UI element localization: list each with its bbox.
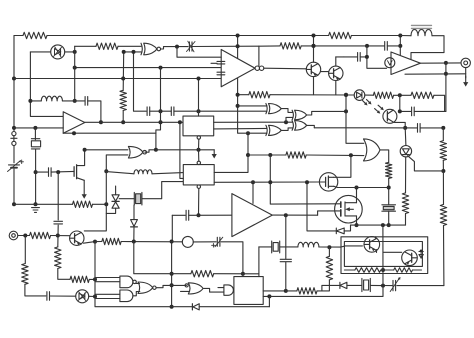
wire U7 top pin <box>198 79 200 117</box>
crystal X1 <box>31 139 40 149</box>
node J44 <box>246 153 250 157</box>
wire <box>122 111 124 123</box>
wire <box>442 160 444 171</box>
wire U2 pin <box>198 189 200 216</box>
wire U5 out <box>420 62 461 64</box>
op-amp U5 <box>391 52 420 75</box>
wire <box>420 127 443 129</box>
LED D5 <box>354 90 371 106</box>
wire <box>313 36 315 63</box>
wire <box>106 208 115 213</box>
node J17 <box>159 66 163 70</box>
wire <box>314 127 417 129</box>
node J67 <box>444 61 448 65</box>
node J65 <box>441 126 445 130</box>
diode D3 <box>192 304 199 310</box>
op-amp U6 <box>221 50 255 87</box>
wire <box>221 242 243 274</box>
wire <box>394 94 411 96</box>
wire <box>30 51 50 53</box>
crystal X3 <box>272 241 280 253</box>
wire <box>404 128 407 146</box>
wire <box>328 247 330 256</box>
gate XOR3 <box>292 121 307 131</box>
resistor R19 <box>402 193 408 214</box>
wire rail182 <box>214 181 319 183</box>
wire U7 bottom pin <box>198 139 200 150</box>
wire vert x307 <box>307 182 336 231</box>
wire <box>30 100 41 102</box>
resistor R6 <box>73 201 93 207</box>
wire <box>286 121 293 123</box>
node J59 <box>344 109 348 113</box>
wire <box>336 56 344 58</box>
wire <box>95 293 120 295</box>
wire <box>442 171 444 204</box>
node J68 <box>398 109 402 113</box>
node J51 <box>312 34 316 38</box>
node J32 <box>170 283 174 287</box>
lamp LP1 <box>182 236 193 247</box>
wire <box>218 287 224 289</box>
wire <box>263 295 269 297</box>
source circle <box>385 58 395 68</box>
wire <box>270 94 354 96</box>
resistor R9 <box>30 232 51 238</box>
node J53 <box>344 93 348 97</box>
node J28 <box>178 120 182 124</box>
wire U6 out <box>264 67 307 70</box>
wire <box>307 125 314 127</box>
wire <box>30 52 63 117</box>
wire <box>171 215 173 241</box>
wire <box>51 235 58 237</box>
wire vert x253 <box>252 182 254 203</box>
node J48 <box>268 180 272 184</box>
wire M1 drain <box>77 150 85 166</box>
gate NOR2 <box>185 283 203 294</box>
ground GND1 <box>32 208 40 213</box>
wire <box>214 127 267 130</box>
wire top rail2 <box>351 35 400 37</box>
node J15 <box>159 120 163 124</box>
wire <box>285 262 287 291</box>
wire <box>341 245 345 248</box>
capacitor C11 <box>418 124 421 133</box>
resistor R1 <box>23 32 47 38</box>
wire <box>152 173 183 174</box>
wire <box>238 36 267 134</box>
node J19 <box>34 202 38 206</box>
wire vert x95 <box>94 242 96 297</box>
resistor R2 <box>96 43 118 49</box>
wire <box>317 280 329 291</box>
wire T2 drain <box>356 188 358 203</box>
transistor Q4 <box>364 237 380 253</box>
node J35 <box>132 240 136 244</box>
wire <box>313 77 315 95</box>
wire U7 right pin1 <box>214 121 286 123</box>
resistor R23 <box>394 268 413 273</box>
wire <box>145 150 156 152</box>
wire <box>307 111 346 115</box>
pin bubble U7 <box>197 136 200 139</box>
wire <box>259 45 280 47</box>
wire <box>199 306 269 308</box>
wire <box>214 273 259 275</box>
node J26 <box>154 148 158 152</box>
wire <box>411 36 444 60</box>
wire <box>118 45 141 47</box>
wire <box>335 57 337 66</box>
wire <box>24 236 26 264</box>
wire <box>344 56 357 58</box>
wire <box>388 211 390 225</box>
wire top rail <box>47 35 329 37</box>
wire <box>133 227 135 242</box>
wire <box>301 45 384 47</box>
wire Q1 base <box>51 235 70 237</box>
diode D6 in circle <box>400 146 411 157</box>
node J57 <box>236 93 240 97</box>
wire T2 gate2 <box>336 210 340 212</box>
resistor R18 <box>280 43 301 49</box>
wire <box>156 285 186 287</box>
node J10 <box>132 50 136 54</box>
wire <box>465 68 467 78</box>
node J3 <box>73 50 77 54</box>
capacitor C8 trimmer <box>212 237 223 247</box>
wire <box>89 295 95 297</box>
node J79 <box>381 268 385 272</box>
node J69 <box>398 34 402 38</box>
wire <box>51 170 74 173</box>
wire <box>360 56 367 58</box>
capacitor C12 <box>412 107 415 116</box>
wire <box>387 45 400 47</box>
node J27 <box>197 148 201 152</box>
wire <box>380 150 388 163</box>
wire <box>124 51 141 53</box>
node J1 <box>12 77 16 81</box>
node J25 <box>104 169 108 173</box>
wire <box>198 150 200 161</box>
node J80 <box>197 77 201 81</box>
wire <box>189 214 233 216</box>
wire <box>204 288 224 292</box>
node J38 <box>93 295 97 299</box>
core <box>412 25 432 28</box>
triac TR1 <box>112 195 119 208</box>
diode D4 <box>336 228 344 234</box>
wire <box>434 95 445 111</box>
triac TR2 in circle <box>76 290 89 303</box>
resistor R11 <box>286 152 306 158</box>
wire bracket <box>74 46 76 101</box>
wire <box>25 284 46 296</box>
node J66 <box>444 72 448 76</box>
wire rail y74 <box>405 73 466 75</box>
capacitor C3 <box>171 107 174 116</box>
wire <box>133 205 135 220</box>
node J46 <box>268 153 272 157</box>
capacitor C13 <box>385 42 388 51</box>
node J34 <box>93 240 97 244</box>
wire <box>344 225 350 231</box>
wire <box>347 284 362 286</box>
pin bubble <box>197 161 200 164</box>
crystal X2 <box>134 192 142 205</box>
wire rail 187 <box>338 187 389 189</box>
transistor Q5 <box>402 250 418 266</box>
node J55 <box>236 34 240 38</box>
resistor R12 <box>326 256 332 280</box>
battery B1 <box>8 160 24 172</box>
node J50 <box>327 245 331 249</box>
wire <box>238 94 249 96</box>
capacitor C9 <box>47 292 50 301</box>
node J14 <box>33 126 37 130</box>
capacitor C17 trimmer <box>390 277 400 292</box>
connector P3 <box>461 58 470 67</box>
gate XOR4 <box>266 125 281 135</box>
wire right bus <box>445 63 447 112</box>
wire <box>95 297 192 307</box>
node J24 <box>104 202 108 206</box>
node J13 <box>99 120 103 124</box>
inductor L4 <box>411 29 432 35</box>
wire Q4 base <box>344 245 362 247</box>
wire <box>161 47 188 49</box>
wire <box>371 284 393 286</box>
wire <box>306 154 364 157</box>
node J12 <box>197 109 201 113</box>
capacitor C14 <box>358 53 361 62</box>
wire <box>321 71 329 73</box>
IC U2 <box>183 165 214 185</box>
inductor L2 <box>134 170 152 174</box>
resistor R4 <box>55 247 61 269</box>
wire <box>335 81 337 95</box>
wire <box>75 45 96 47</box>
wire <box>414 110 446 112</box>
wire <box>150 110 172 112</box>
node J37 <box>23 234 27 238</box>
transistor T2 mosfet <box>335 195 363 223</box>
connector P1 <box>11 132 17 146</box>
node J9 <box>121 120 125 124</box>
wire <box>214 155 248 172</box>
wire <box>269 295 383 297</box>
node J74 <box>355 186 359 190</box>
wire <box>172 214 185 216</box>
wire <box>258 247 260 277</box>
wire U1 in2 <box>14 127 63 129</box>
resistor R3 <box>120 90 126 110</box>
wire U1 out rail <box>85 121 183 123</box>
wire <box>84 204 106 231</box>
wire <box>382 225 384 296</box>
wire <box>405 214 407 226</box>
wire <box>248 154 286 156</box>
diode D7 <box>340 282 347 288</box>
wire <box>318 211 337 215</box>
resistor R8 <box>191 271 214 277</box>
wire <box>268 296 270 306</box>
wire vert x123 <box>122 52 125 90</box>
node J56 <box>236 44 240 48</box>
wire <box>442 128 444 141</box>
node J43 <box>251 180 255 184</box>
wire <box>172 273 191 275</box>
LED D8 <box>419 250 423 259</box>
node J75 <box>355 223 359 227</box>
crystal X4 <box>382 205 396 211</box>
gate XOR1 <box>266 104 281 114</box>
wire <box>121 241 182 243</box>
node J16 <box>72 131 76 135</box>
node J73 <box>365 55 369 59</box>
wire <box>413 269 422 271</box>
wire <box>93 203 107 205</box>
gate NOR1 <box>138 282 156 293</box>
phototransistor PT1 <box>375 105 397 123</box>
wire vert x160 <box>160 68 162 123</box>
node J76 <box>381 223 385 227</box>
wire <box>443 226 445 286</box>
gate XNOR1 <box>141 43 161 55</box>
box B4 inner <box>344 242 422 267</box>
wire <box>351 224 406 226</box>
wire <box>142 182 183 199</box>
resistor R17 <box>386 162 392 178</box>
wire <box>381 269 394 271</box>
node J60 <box>284 120 288 124</box>
wire <box>242 274 244 277</box>
resistor R14 <box>249 92 270 98</box>
IC U7 <box>183 116 214 136</box>
rail y67 <box>75 67 222 69</box>
wire <box>193 241 216 243</box>
wire <box>58 269 70 280</box>
node J8 <box>121 77 125 81</box>
wire T2 source <box>356 216 358 225</box>
wire <box>13 136 15 142</box>
wire <box>374 237 376 238</box>
wire <box>133 292 140 296</box>
node J47 <box>349 153 353 157</box>
node J11 <box>159 109 163 113</box>
diode D2 <box>131 220 138 227</box>
wire <box>181 290 190 292</box>
wire <box>322 285 340 291</box>
node J7 <box>175 45 179 49</box>
gate XOR2 <box>292 110 307 120</box>
wire <box>57 225 59 247</box>
node J30 <box>170 240 174 244</box>
wire <box>400 35 411 37</box>
node J39 <box>93 277 97 281</box>
capacitor C2 <box>147 107 150 116</box>
node J22 <box>83 148 87 152</box>
wire <box>282 109 293 113</box>
wire <box>106 155 128 171</box>
node J70 <box>398 44 402 48</box>
capacitor C4 <box>85 97 88 106</box>
wire <box>192 45 259 47</box>
wire left bus upper <box>13 36 15 132</box>
transistor Q3 <box>329 66 343 80</box>
node J41 <box>267 294 271 298</box>
rail y78 <box>14 78 221 80</box>
node J21 <box>56 170 60 174</box>
capacitor C1 trimmer <box>187 41 196 52</box>
node J49 <box>305 180 309 184</box>
inductor L1 <box>41 96 62 101</box>
node J5 <box>73 99 77 103</box>
gate NAND2 <box>120 276 136 288</box>
capacitor C15 <box>217 61 225 64</box>
resistor R5 <box>70 276 89 282</box>
wire <box>14 35 23 37</box>
node J23 <box>56 234 60 238</box>
resistor R20 <box>440 141 446 161</box>
pin bubble <box>197 185 200 188</box>
wire vert x399 <box>399 95 401 111</box>
wire feedback2 <box>63 132 156 134</box>
node J61 <box>344 93 348 97</box>
wire <box>399 36 401 56</box>
resistor R13 <box>297 288 317 294</box>
wire <box>50 295 76 297</box>
wire <box>106 172 134 174</box>
wire <box>171 242 173 307</box>
wire <box>376 250 378 253</box>
node J54 <box>398 93 402 97</box>
capacitor C5 <box>49 168 52 177</box>
wire T1 drain <box>334 155 351 177</box>
wire <box>13 169 15 204</box>
gate NAND1 <box>128 146 146 158</box>
node J31 <box>170 272 174 276</box>
wire <box>134 242 172 274</box>
wire <box>344 269 355 271</box>
wire T1 source <box>334 186 338 187</box>
wire vert x270 <box>270 155 336 204</box>
transistor T1 <box>319 173 337 191</box>
gate AND2 <box>224 285 234 295</box>
op-amp U1 <box>63 112 85 134</box>
wire jog <box>408 156 444 171</box>
capacitor C16 <box>217 72 225 75</box>
arrow A1 <box>212 150 217 159</box>
wire <box>85 149 128 151</box>
node J52 <box>312 44 316 48</box>
wire <box>136 283 139 285</box>
wire <box>367 46 387 68</box>
node J40 <box>284 289 288 293</box>
bubble U6 <box>255 66 264 70</box>
wire <box>180 122 183 178</box>
wire <box>247 133 249 155</box>
wire <box>285 215 287 258</box>
wire <box>238 105 267 107</box>
wire <box>14 203 73 205</box>
wire <box>400 110 411 112</box>
wire M1 source <box>77 178 87 199</box>
wire <box>13 146 15 163</box>
node J18 <box>34 170 38 174</box>
